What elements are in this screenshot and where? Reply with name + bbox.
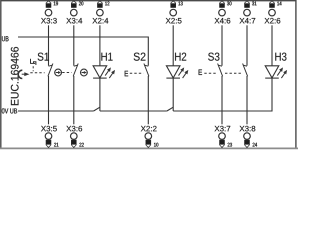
lamp H3 reference label — [275, 53, 286, 61]
terminal X3:3 label — [41, 18, 57, 24]
wire H1 cathode to 0V bus — [99, 78, 101, 111]
switch S1 reference label — [38, 53, 49, 61]
junction diagonal H2 to 0V bus — [167, 107, 173, 111]
frame border (bottom, grey) — [0, 147, 298, 149]
switch S2 reference label — [134, 53, 146, 61]
connector plug, pin 22 (bottom, X3:6) — [71, 140, 76, 147]
terminal X3:7 label — [215, 126, 231, 132]
S3 contact 2 (NO) — [243, 65, 247, 66]
connector plug, pin 14 (top, X2:6) — [270, 1, 275, 8]
wire UB bus horizontal — [18, 36, 148, 38]
terminal X2:4 label — [92, 18, 108, 23]
wire S3 contact 1 to X3:7 — [221, 76, 223, 124]
pin number 13 — [178, 2, 182, 6]
S1 mechanical link dashes to contact 2 — [62, 72, 71, 74]
terminal X4:6 circle — [219, 9, 226, 16]
S3 mechanical link dashes to contact 2 — [225, 72, 242, 74]
LED H2 emission arrow 2 — [183, 72, 187, 78]
LED H2 cathode bar — [166, 77, 180, 79]
LED H1 cathode bar — [93, 77, 107, 79]
LED H1 triangle — [93, 66, 107, 78]
S1 key-operated actuator symbol — [30, 59, 32, 64]
connector plug, pin 10 (bottom, X2:2) — [146, 140, 151, 147]
wire X3:4 to S1 contact 2 — [73, 25, 75, 65]
wire S2 to X2:2 — [147, 76, 149, 124]
LED H1 emission arrow 1 — [105, 70, 109, 76]
pin number 22 — [79, 143, 83, 147]
junction diagonal H1 to 0V bus — [94, 107, 100, 111]
S1 contact 2 (NO) — [74, 65, 78, 66]
terminal X3:3 circle — [45, 9, 52, 16]
connector plug, pin 19 (top, X3:3) — [46, 1, 51, 8]
terminal X2:2 label — [141, 126, 157, 131]
S1 contact 1 actuation circle-arrow — [55, 69, 62, 76]
terminal X3:4 label — [66, 18, 82, 24]
S3 mechanical link dashes to contact 1 — [204, 72, 216, 74]
terminal X2:5 circle — [170, 9, 177, 16]
net label 0V UB — [2, 108, 17, 113]
pin number 21 — [54, 143, 58, 147]
pin number 10 — [154, 143, 158, 147]
net label UB — [2, 36, 9, 41]
pin number 31 — [252, 2, 256, 6]
LED H3 emission arrow 1 — [277, 70, 281, 76]
terminal X2:6 label — [265, 18, 281, 24]
LED H1 emission arrow 2 — [109, 72, 113, 78]
S3 contact 1 (NO) — [218, 65, 222, 66]
pin number 14 — [277, 2, 281, 6]
wire 0V UB bus segment 3 — [173, 110, 272, 112]
terminal X3:4 circle — [71, 9, 78, 16]
lamp H1 reference label — [101, 53, 112, 61]
terminal X3:8 label — [240, 126, 256, 132]
wire X2:5 to H2 anode — [172, 25, 174, 66]
wire X2:6 to H3 anode — [271, 25, 273, 66]
LED H3 triangle — [265, 66, 279, 78]
terminal X2:4 circle — [97, 9, 104, 16]
S3 actuator label E — [199, 70, 202, 75]
terminal X3:8 circle — [244, 133, 251, 140]
S2 mechanical link dashes — [130, 72, 144, 74]
terminal X3:7 circle — [219, 133, 226, 140]
connector plug, pin 23 (bottom, X3:7) — [220, 140, 225, 147]
wire S1 contact 1 to X3:5 — [48, 76, 50, 124]
terminal X4:6 label — [215, 18, 231, 24]
LED H2 triangle — [166, 66, 180, 78]
LED H3 emission arrow 2 — [281, 72, 285, 78]
connector plug, pin 13 (top, X2:5) — [171, 1, 176, 8]
connector plug, pin 24 (bottom, X3:8) — [245, 140, 250, 147]
terminal X3:5 circle — [45, 133, 52, 140]
wire UB bus corner down to S2 — [147, 37, 149, 66]
wire H2 cathode to 0V bus — [172, 78, 174, 111]
terminal X4:7 label — [240, 18, 256, 23]
pin number 30 — [227, 2, 231, 6]
wire X4:7 to S3 contact 2 — [246, 25, 248, 65]
connector plug, pin 30 (top, X4:6) — [220, 1, 225, 8]
S1 contact 1 (NO) — [49, 65, 53, 66]
pin number 19 — [54, 2, 58, 6]
terminal X2:6 circle — [269, 9, 276, 16]
wire H3 cathode down to 0V bus corner — [271, 78, 273, 111]
terminal X3:6 circle — [71, 133, 78, 140]
wire S1 contact 2 to X3:6 — [73, 76, 75, 124]
LED H2 emission arrow 1 — [179, 70, 183, 76]
wire 0V UB bus segment 1 — [18, 110, 94, 112]
wire X2:4 to H1 anode — [99, 25, 101, 66]
S1 actuator direction arrow — [24, 72, 29, 76]
switch S3 reference label — [208, 53, 219, 61]
terminal X2:2 circle — [145, 133, 152, 140]
pin number 20 — [79, 2, 83, 6]
terminal X3:5 label — [41, 126, 57, 132]
vertical plant code text EUC.169466 — [11, 47, 19, 105]
S1 mechanical link dashes to contact 1 — [30, 72, 44, 74]
S1 contact 2 actuation circle-arrow — [81, 69, 88, 76]
pin number 23 — [228, 143, 232, 147]
connector plug, pin 12 (top, X2:4) — [98, 1, 103, 8]
terminal X4:7 circle — [244, 9, 251, 16]
wire S3 contact 2 to X3:8 — [246, 76, 248, 124]
S2 contact (NO) — [144, 65, 148, 66]
S1 mechanical link (vertical dashes) — [32, 66, 34, 71]
frame border (left, top, right) — [1, 1, 296, 149]
LED H3 cathode bar — [265, 77, 279, 79]
wire 0V UB bus segment 2 — [100, 110, 167, 112]
S1 actuator half-disc — [18, 70, 22, 78]
wire X3:3 to S1 contact 1 — [48, 25, 50, 65]
terminal X2:5 label — [166, 18, 182, 24]
terminal X3:6 label — [66, 126, 82, 132]
lamp H2 reference label — [175, 53, 186, 61]
S2 actuator label E — [125, 71, 128, 76]
pin number 12 — [105, 2, 109, 6]
connector plug, pin 31 (top, X4:7) — [245, 1, 250, 8]
connector plug, pin 21 (bottom, X3:5) — [46, 140, 51, 147]
connector plug, pin 20 (top, X3:4) — [71, 1, 76, 8]
wire X4:6 to S3 contact 1 — [221, 25, 223, 65]
pin number 24 — [253, 143, 257, 147]
